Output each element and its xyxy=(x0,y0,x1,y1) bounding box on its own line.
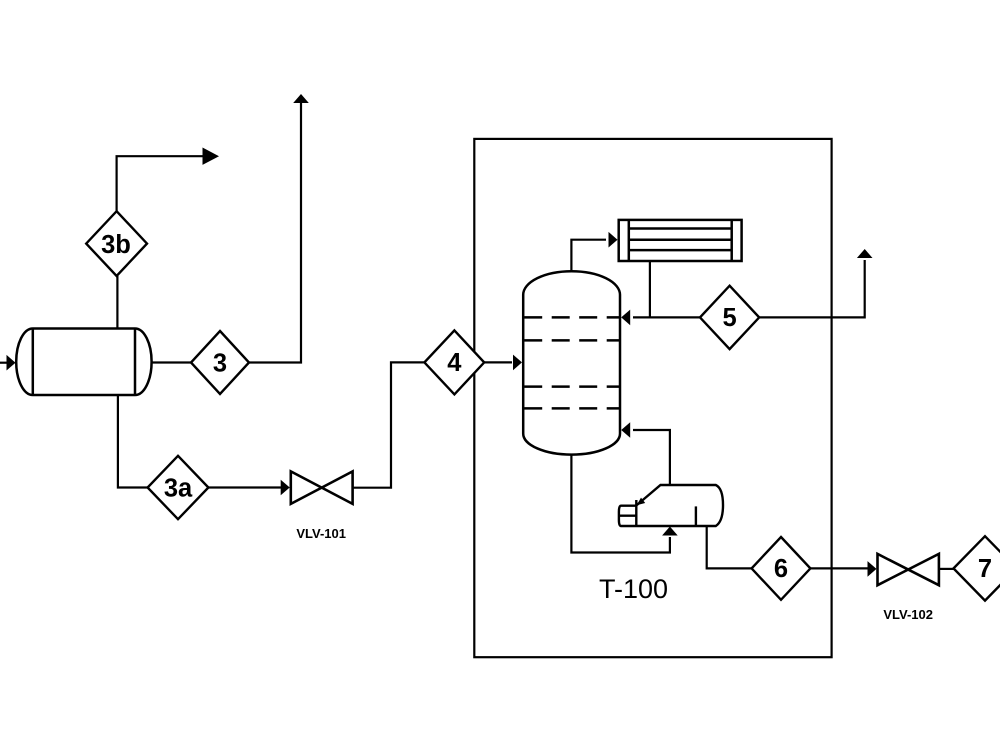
svg-text:VLV-101: VLV-101 xyxy=(296,526,346,541)
svg-text:7: 7 xyxy=(978,555,992,583)
svg-text:5: 5 xyxy=(723,304,737,332)
svg-text:4: 4 xyxy=(447,349,462,377)
svg-text:VLV-102: VLV-102 xyxy=(883,607,933,622)
svg-text:3a: 3a xyxy=(164,474,193,502)
svg-text:6: 6 xyxy=(774,555,788,583)
svg-text:T-100: T-100 xyxy=(599,574,668,604)
svg-text:3b: 3b xyxy=(101,231,131,259)
svg-text:3: 3 xyxy=(213,349,227,377)
